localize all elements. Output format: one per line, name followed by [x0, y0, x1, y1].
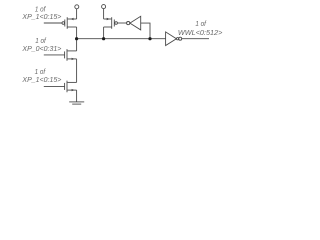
wire M1 drain to node A	[76, 27, 78, 39]
power pin VDD1	[75, 5, 79, 9]
label XP_1<0:15> bottom	[21, 67, 62, 84]
wire M2 source to M3 drain	[76, 59, 78, 83]
label XP_0<0:31>	[21, 36, 62, 53]
label WWL<0:512>	[178, 19, 223, 37]
ground	[69, 102, 84, 104]
nmos M3 XP_1 bottom	[65, 81, 77, 93]
wire I1 input down to node C	[141, 23, 150, 39]
wire M4 gate to keeper inverter	[118, 22, 127, 24]
wire gate stub XP_1 bottom	[44, 85, 65, 87]
inverter I1 keeper (faces left)	[127, 16, 141, 30]
svg-text:XP_1<0:15>: XP_1<0:15>	[21, 12, 62, 21]
wire VDD2 stem	[103, 9, 105, 19]
inverter I2 output driver	[166, 32, 179, 46]
wire WWL output	[182, 38, 209, 40]
junction node C	[148, 37, 151, 40]
junction node A	[75, 37, 78, 40]
wire gate stub XP_0	[44, 54, 65, 56]
svg-text:XP_1<0:15>: XP_1<0:15>	[21, 75, 62, 84]
wire M3 source to ground	[76, 90, 78, 102]
wire VDD1 stem	[76, 9, 78, 19]
nmos M2 XP_0	[65, 49, 77, 61]
junction node B	[102, 37, 105, 40]
label XP_1<0:15> top	[21, 4, 62, 21]
output pin WWL	[179, 37, 182, 40]
power pin VDD2	[102, 5, 106, 9]
wire M2 drain up to node A	[76, 39, 78, 51]
svg-text:1 of: 1 of	[195, 19, 206, 28]
wire main node	[77, 38, 166, 40]
pmos M4 keeper	[104, 17, 118, 29]
wire M4 drain to node B	[103, 27, 105, 39]
svg-text:WWL<0:512>: WWL<0:512>	[178, 28, 223, 37]
wire gate stub XP_1 top	[44, 22, 62, 24]
svg-text:XP_0<0:31>: XP_0<0:31>	[21, 44, 62, 53]
pmos M1 XP_1 pull-up	[62, 17, 77, 29]
